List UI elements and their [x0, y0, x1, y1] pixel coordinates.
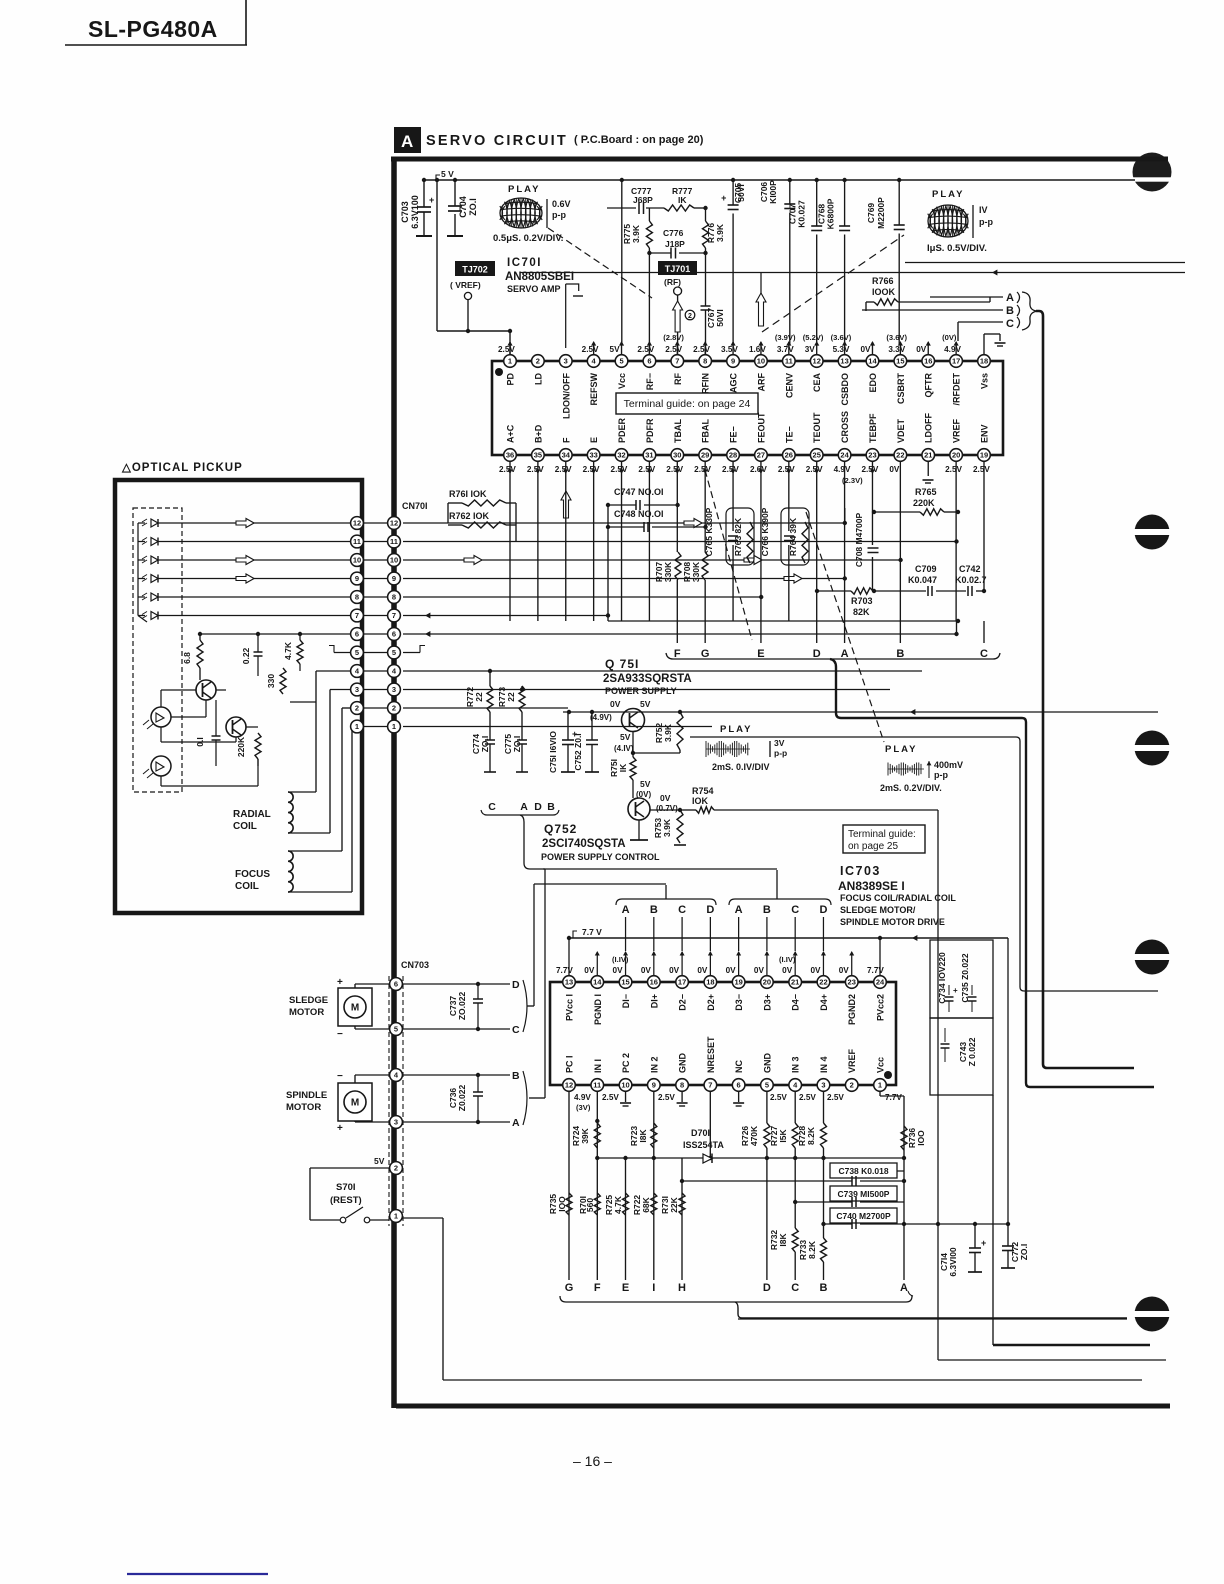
- svg-text:F: F: [594, 1282, 601, 1294]
- svg-text:PLAY: PLAY: [885, 744, 917, 755]
- svg-text:3: 3: [392, 685, 396, 694]
- svg-text:C709: C709: [915, 564, 937, 574]
- svg-text:470K: 470K: [749, 1125, 759, 1146]
- svg-text:DI−: DI−: [621, 994, 631, 1008]
- svg-text:B: B: [512, 1070, 520, 1082]
- svg-text:22: 22: [819, 978, 827, 987]
- svg-text:5V: 5V: [620, 732, 631, 742]
- svg-text:22: 22: [474, 692, 484, 702]
- svg-text:(I.IV): (I.IV): [612, 955, 629, 964]
- svg-text:(4.9V): (4.9V): [590, 713, 612, 722]
- svg-text:IN 3: IN 3: [791, 1056, 801, 1073]
- svg-text:CSBDO: CSBDO: [840, 373, 850, 406]
- svg-text:9: 9: [392, 574, 396, 583]
- svg-text:IOOK: IOOK: [872, 287, 896, 297]
- svg-text:(5.2V): (5.2V): [803, 333, 824, 342]
- svg-text:LD: LD: [533, 373, 543, 385]
- svg-text:K0.02.7: K0.02.7: [955, 575, 987, 585]
- svg-text:ZO.I: ZO.I: [468, 198, 478, 216]
- svg-text:0V: 0V: [610, 699, 621, 709]
- svg-text:POWER SUPPLY: POWER SUPPLY: [605, 686, 677, 696]
- svg-text:27: 27: [757, 451, 765, 460]
- svg-text:A+C: A+C: [506, 424, 516, 443]
- svg-text:5: 5: [765, 1081, 769, 1090]
- svg-text:2SCI740SQSTA: 2SCI740SQSTA: [542, 838, 626, 850]
- svg-text:M: M: [351, 1098, 359, 1109]
- svg-text:Terminal guide:: Terminal guide:: [848, 829, 916, 840]
- svg-text:ARF: ARF: [756, 373, 766, 392]
- svg-text:CN703: CN703: [401, 960, 429, 970]
- svg-text:1: 1: [392, 722, 396, 731]
- svg-text:2.5V: 2.5V: [666, 465, 683, 474]
- svg-text:0V: 0V: [782, 966, 793, 975]
- svg-text:22K: 22K: [669, 1196, 679, 1212]
- svg-text:D3+: D3+: [762, 994, 772, 1011]
- svg-text:B: B: [547, 801, 555, 813]
- svg-text:B: B: [820, 1282, 828, 1294]
- svg-text:D2+: D2+: [706, 994, 716, 1011]
- svg-text:3.9K: 3.9K: [631, 224, 641, 243]
- svg-text:p-p: p-p: [934, 770, 948, 780]
- svg-text:10: 10: [353, 556, 361, 565]
- svg-text:QFTR: QFTR: [924, 373, 934, 398]
- svg-text:C708 M4700P: C708 M4700P: [854, 513, 864, 568]
- svg-text:Vcc: Vcc: [876, 1057, 886, 1073]
- svg-text:I: I: [652, 1282, 655, 1294]
- svg-text:(I.IV): (I.IV): [779, 955, 796, 964]
- svg-text:18: 18: [980, 357, 988, 366]
- svg-text:2mS. 0.IV/DIV: 2mS. 0.IV/DIV: [712, 762, 770, 772]
- svg-text:(2.8V): (2.8V): [663, 333, 684, 342]
- svg-text:G: G: [565, 1282, 574, 1294]
- svg-text:E: E: [589, 437, 599, 443]
- svg-text:9: 9: [355, 574, 359, 583]
- svg-text:(4.IV): (4.IV): [614, 744, 634, 753]
- svg-text:2SA933SQRSTA: 2SA933SQRSTA: [603, 673, 692, 685]
- svg-text:10: 10: [621, 1081, 629, 1090]
- svg-text:C739 MI500P: C739 MI500P: [838, 1189, 890, 1199]
- svg-text:CROSS: CROSS: [840, 411, 850, 443]
- svg-text:19: 19: [980, 451, 988, 460]
- svg-text:17: 17: [678, 978, 686, 987]
- svg-text:0V: 0V: [641, 966, 652, 975]
- svg-text:I8K: I8K: [778, 1233, 788, 1247]
- svg-text:8: 8: [680, 1081, 684, 1090]
- svg-text:B: B: [650, 904, 658, 916]
- svg-text:A: A: [512, 1117, 520, 1129]
- svg-text:5V: 5V: [610, 345, 621, 354]
- svg-text:PC I: PC I: [565, 1055, 575, 1073]
- svg-text:△OPTICAL PICKUP: △OPTICAL PICKUP: [121, 462, 243, 474]
- svg-text:22: 22: [896, 451, 904, 460]
- svg-text:FE−: FE−: [729, 426, 739, 443]
- svg-text:IK: IK: [618, 763, 628, 772]
- svg-text:C: C: [678, 904, 686, 916]
- svg-text:17: 17: [952, 357, 960, 366]
- svg-text:6: 6: [647, 357, 651, 366]
- svg-text:2.5V: 2.5V: [827, 1093, 844, 1102]
- svg-text:35: 35: [534, 451, 542, 460]
- svg-text:C752 Z0.I: C752 Z0.I: [573, 733, 583, 770]
- svg-text:+: +: [337, 977, 343, 988]
- svg-text:B+D: B+D: [533, 424, 543, 443]
- svg-text:21: 21: [791, 978, 799, 987]
- svg-text:on page 25: on page 25: [848, 841, 898, 852]
- svg-text:R764 39K: R764 39K: [788, 517, 798, 556]
- svg-text:24: 24: [840, 451, 849, 460]
- svg-text:DI+: DI+: [649, 994, 659, 1008]
- svg-text:(3.9V): (3.9V): [775, 333, 796, 342]
- svg-text:5.3V: 5.3V: [833, 345, 850, 354]
- svg-text:GND: GND: [762, 1053, 772, 1074]
- svg-text:23: 23: [868, 451, 876, 460]
- svg-text:1: 1: [355, 722, 359, 731]
- svg-text:PVcc2: PVcc2: [876, 994, 886, 1021]
- svg-text:12: 12: [353, 519, 361, 528]
- svg-text:2: 2: [850, 1081, 854, 1090]
- svg-text:C738 K0.018: C738 K0.018: [838, 1166, 888, 1176]
- svg-text:RFIN: RFIN: [701, 373, 711, 394]
- svg-text:ISS254TA: ISS254TA: [683, 1140, 724, 1150]
- svg-text:R765: R765: [915, 487, 937, 497]
- svg-text:0.22: 0.22: [241, 647, 251, 664]
- svg-text:−: −: [337, 1071, 343, 1082]
- svg-text:SERVO AMP: SERVO AMP: [507, 284, 561, 294]
- svg-text:G: G: [701, 648, 710, 660]
- svg-text:36: 36: [506, 451, 514, 460]
- svg-text:C75I I6VIO: C75I I6VIO: [548, 731, 558, 773]
- svg-text:2mS. 0.2V/DIV.: 2mS. 0.2V/DIV.: [880, 783, 942, 793]
- svg-text:7.7V: 7.7V: [556, 966, 573, 975]
- svg-text:REFSW: REFSW: [589, 372, 599, 405]
- svg-text:R763 82K: R763 82K: [733, 517, 743, 556]
- svg-text:2: 2: [536, 357, 540, 366]
- svg-text:MOTOR: MOTOR: [286, 1102, 321, 1113]
- svg-text:8: 8: [703, 357, 707, 366]
- svg-text:10: 10: [390, 556, 398, 565]
- svg-text:2.5V: 2.5V: [861, 465, 878, 474]
- svg-text:2.5V: 2.5V: [693, 345, 710, 354]
- svg-text:H: H: [678, 1282, 686, 1294]
- svg-text:14: 14: [868, 357, 877, 366]
- svg-text:4.7K: 4.7K: [283, 641, 293, 660]
- svg-text:7: 7: [675, 357, 679, 366]
- svg-text:2.5V: 2.5V: [778, 465, 795, 474]
- svg-text:CENV: CENV: [784, 373, 794, 398]
- svg-text:+: +: [337, 1123, 343, 1134]
- svg-text:+: +: [981, 1238, 986, 1248]
- svg-text:30: 30: [673, 451, 681, 460]
- svg-text:3.7V: 3.7V: [777, 345, 794, 354]
- svg-text:D70I: D70I: [691, 1128, 710, 1138]
- svg-text:+: +: [953, 986, 958, 995]
- svg-text:5: 5: [355, 648, 359, 657]
- svg-text:2: 2: [392, 704, 396, 713]
- svg-text:A: A: [841, 648, 849, 660]
- svg-text:IN I: IN I: [593, 1059, 603, 1073]
- svg-text:0V: 0V: [839, 966, 850, 975]
- svg-text:5: 5: [619, 357, 623, 366]
- svg-text:7: 7: [355, 611, 359, 620]
- svg-text:0V: 0V: [660, 793, 671, 803]
- svg-text:400mV: 400mV: [934, 760, 963, 770]
- svg-text:IOK: IOK: [692, 796, 709, 806]
- svg-text:M: M: [351, 1003, 359, 1014]
- svg-text:13: 13: [840, 357, 848, 366]
- svg-text:5: 5: [394, 1025, 398, 1034]
- svg-text:29: 29: [701, 451, 709, 460]
- svg-text:C: C: [1006, 318, 1014, 330]
- svg-text:FBAL: FBAL: [701, 419, 711, 443]
- svg-text:4.9V: 4.9V: [944, 345, 961, 354]
- svg-text:15: 15: [896, 357, 904, 366]
- svg-text:1.6V: 1.6V: [749, 345, 766, 354]
- svg-text:IC70I: IC70I: [507, 257, 542, 269]
- svg-text:IK: IK: [678, 195, 687, 205]
- svg-text:1: 1: [508, 357, 512, 366]
- svg-text:A: A: [622, 904, 630, 916]
- svg-text:2: 2: [688, 313, 692, 320]
- svg-text:Vcc: Vcc: [617, 373, 627, 389]
- svg-text:A: A: [735, 904, 743, 916]
- svg-text:8: 8: [355, 593, 359, 602]
- svg-text:D4+: D4+: [819, 994, 829, 1011]
- svg-text:NC: NC: [734, 1060, 744, 1073]
- svg-text:PGND I: PGND I: [593, 994, 603, 1025]
- svg-text:16: 16: [650, 978, 658, 987]
- svg-text:B: B: [896, 648, 904, 660]
- svg-text:20: 20: [763, 978, 771, 987]
- svg-text:/RFDET: /RFDET: [952, 373, 962, 406]
- svg-text:3.9K: 3.9K: [715, 223, 725, 242]
- svg-text:TJ702: TJ702: [462, 265, 488, 275]
- svg-text:15: 15: [621, 978, 629, 987]
- svg-text:3.3V: 3.3V: [888, 345, 905, 354]
- svg-text:IN 2: IN 2: [649, 1056, 659, 1073]
- svg-text:CN70I: CN70I: [402, 501, 428, 511]
- svg-text:IOO: IOO: [916, 1130, 926, 1146]
- svg-text:14: 14: [593, 978, 602, 987]
- svg-text:2.5V: 2.5V: [555, 465, 572, 474]
- svg-text:0.6V: 0.6V: [552, 199, 571, 209]
- svg-text:330K: 330K: [663, 561, 673, 582]
- svg-text:−: −: [337, 1029, 343, 1040]
- svg-text:C735 Z0.022: C735 Z0.022: [960, 953, 970, 1002]
- svg-text:16: 16: [924, 357, 932, 366]
- svg-text:C776: C776: [663, 228, 684, 238]
- svg-text:D: D: [534, 801, 542, 813]
- svg-text:p-p: p-p: [774, 748, 787, 758]
- svg-text:6: 6: [355, 630, 359, 639]
- svg-text:SPINDLE MOTOR DRIVE: SPINDLE MOTOR DRIVE: [840, 917, 945, 927]
- svg-text:S70I: S70I: [336, 1182, 356, 1193]
- svg-text:0V: 0V: [889, 465, 900, 474]
- svg-text:CSBRT: CSBRT: [896, 372, 906, 404]
- svg-text:(REST): (REST): [330, 1195, 362, 1206]
- svg-text:I8K: I8K: [638, 1129, 648, 1143]
- svg-text:2.5V: 2.5V: [665, 345, 682, 354]
- svg-text:8.2K: 8.2K: [806, 1126, 816, 1145]
- svg-text:6: 6: [392, 630, 396, 639]
- svg-text:220K: 220K: [913, 498, 935, 508]
- svg-text:PD: PD: [506, 373, 516, 386]
- svg-text:K6800P: K6800P: [826, 198, 836, 229]
- svg-text:4.9V: 4.9V: [834, 465, 851, 474]
- svg-text:Z 0.022: Z 0.022: [967, 1037, 977, 1066]
- svg-text:21: 21: [924, 451, 932, 460]
- svg-text:TEBPF: TEBPF: [868, 413, 878, 443]
- svg-text:R703: R703: [851, 596, 873, 606]
- svg-text:C: C: [512, 1024, 520, 1036]
- svg-text:2.5V: 2.5V: [498, 345, 515, 354]
- svg-text:2.5V: 2.5V: [722, 465, 739, 474]
- svg-text:A: A: [401, 132, 413, 151]
- svg-text:5V: 5V: [640, 699, 651, 709]
- svg-text:LDON/OFF: LDON/OFF: [561, 373, 571, 419]
- svg-text:(3.6V): (3.6V): [886, 333, 907, 342]
- svg-text:3: 3: [394, 1118, 398, 1127]
- svg-text:5V: 5V: [374, 1156, 385, 1166]
- svg-text:D: D: [819, 904, 827, 916]
- svg-text:D: D: [813, 648, 821, 660]
- svg-text:PLAY: PLAY: [720, 724, 752, 735]
- svg-text:0V: 0V: [669, 966, 680, 975]
- svg-text:6.3VI00: 6.3VI00: [948, 1247, 958, 1277]
- svg-text:FOCUS COIL/RADIAL COIL: FOCUS COIL/RADIAL COIL: [840, 893, 956, 903]
- svg-text:0V: 0V: [860, 345, 871, 354]
- svg-text:1: 1: [878, 1081, 882, 1090]
- svg-text:0V: 0V: [697, 966, 708, 975]
- svg-text:C: C: [791, 1282, 799, 1294]
- svg-text:C: C: [980, 648, 988, 660]
- svg-text:A: A: [900, 1282, 908, 1294]
- svg-text:D3−: D3−: [734, 994, 744, 1011]
- svg-text:FEOUT: FEOUT: [756, 412, 766, 443]
- svg-text:R762 IOK: R762 IOK: [449, 511, 490, 521]
- svg-text:0V: 0V: [613, 966, 624, 975]
- svg-text:2.5V: 2.5V: [658, 1093, 675, 1102]
- svg-text:32: 32: [617, 451, 625, 460]
- svg-text:7: 7: [392, 611, 396, 620]
- svg-text:2.5V: 2.5V: [582, 345, 599, 354]
- svg-text:POWER SUPPLY CONTROL: POWER SUPPLY CONTROL: [541, 852, 660, 862]
- svg-text:2.5V: 2.5V: [499, 465, 516, 474]
- svg-text:20: 20: [952, 451, 960, 460]
- svg-text:50VI: 50VI: [715, 309, 725, 327]
- svg-text:B: B: [763, 904, 771, 916]
- svg-text:p-p: p-p: [979, 217, 993, 227]
- svg-text:+: +: [721, 193, 726, 203]
- svg-text:( VREF): ( VREF): [450, 280, 481, 290]
- svg-text:6: 6: [394, 980, 398, 989]
- svg-text:D2−: D2−: [678, 994, 688, 1011]
- svg-text:PGND2: PGND2: [847, 994, 857, 1025]
- svg-text:11: 11: [785, 357, 793, 366]
- svg-text:13: 13: [565, 978, 573, 987]
- svg-text:6.3V100: 6.3V100: [410, 195, 420, 229]
- svg-text:0.5μS. 0.2V/DIV.: 0.5μS. 0.2V/DIV.: [493, 233, 563, 244]
- svg-text:3V: 3V: [774, 738, 785, 748]
- svg-text:82K: 82K: [853, 607, 870, 617]
- svg-text:( P.C.Board : on page 20): ( P.C.Board : on page 20): [574, 134, 704, 146]
- svg-text:(0.7V): (0.7V): [656, 804, 678, 813]
- svg-text:C703: C703: [400, 201, 410, 223]
- svg-text:Q 75I: Q 75I: [605, 657, 639, 671]
- svg-text:330: 330: [266, 674, 276, 688]
- svg-text:IμS. 0.5V/DIV.: IμS. 0.5V/DIV.: [927, 243, 987, 254]
- svg-text:9: 9: [731, 357, 735, 366]
- svg-text:PLAY: PLAY: [932, 189, 964, 200]
- svg-text:K0.047: K0.047: [908, 575, 937, 585]
- svg-text:COIL: COIL: [235, 881, 259, 892]
- svg-text:6.8: 6.8: [182, 652, 192, 664]
- svg-text:VREF: VREF: [847, 1048, 857, 1073]
- svg-text:220K: 220K: [236, 736, 246, 757]
- svg-text:VDET: VDET: [896, 418, 906, 443]
- svg-text:7.7 V: 7.7 V: [582, 927, 602, 937]
- svg-text:(0V): (0V): [942, 333, 957, 342]
- svg-text:RF−: RF−: [645, 373, 655, 390]
- svg-text:7.7V: 7.7V: [885, 1093, 902, 1102]
- svg-text:(RF): (RF): [664, 277, 681, 287]
- svg-text:F: F: [674, 648, 681, 660]
- svg-text:IN 4: IN 4: [819, 1056, 829, 1073]
- svg-text:11: 11: [593, 1081, 601, 1090]
- svg-text:3: 3: [564, 357, 568, 366]
- svg-text:18: 18: [706, 978, 714, 987]
- svg-text:AN8389SE I: AN8389SE I: [838, 879, 905, 893]
- svg-text:2: 2: [394, 1164, 398, 1173]
- svg-text:Q752: Q752: [544, 822, 577, 836]
- svg-text:IC703: IC703: [840, 864, 881, 878]
- svg-text:– 16 –: – 16 –: [573, 1453, 612, 1469]
- svg-text:VREF: VREF: [952, 418, 962, 443]
- svg-text:R766: R766: [872, 276, 894, 286]
- svg-text:10: 10: [757, 357, 765, 366]
- svg-text:TE−: TE−: [784, 426, 794, 443]
- svg-text:PDFR: PDFR: [645, 418, 655, 443]
- svg-text:C742: C742: [959, 564, 981, 574]
- svg-text:2.5V: 2.5V: [806, 465, 823, 474]
- svg-text:11: 11: [390, 537, 398, 546]
- svg-text:25: 25: [813, 451, 821, 460]
- svg-text:12: 12: [813, 357, 821, 366]
- svg-text:EDO: EDO: [868, 373, 878, 393]
- svg-text:5V: 5V: [640, 779, 651, 789]
- svg-text:C: C: [791, 904, 799, 916]
- svg-text:E: E: [757, 648, 764, 660]
- svg-text:IV: IV: [979, 205, 988, 215]
- svg-text:0V: 0V: [584, 966, 595, 975]
- svg-text:2.5V: 2.5V: [945, 465, 962, 474]
- svg-text:COIL: COIL: [233, 821, 257, 832]
- svg-text:4.9V: 4.9V: [574, 1093, 591, 1102]
- svg-text:2.5V: 2.5V: [611, 465, 628, 474]
- svg-text:R76I IOK: R76I IOK: [449, 489, 487, 499]
- svg-text:Terminal guide: on page 24: Terminal guide: on page 24: [624, 398, 751, 410]
- svg-text:2.5V: 2.5V: [799, 1093, 816, 1102]
- svg-text:560: 560: [585, 1198, 595, 1212]
- svg-text:IOO: IOO: [557, 1196, 567, 1212]
- svg-text:R754: R754: [692, 786, 714, 796]
- svg-text:5 V: 5 V: [441, 169, 454, 179]
- svg-text:8: 8: [392, 593, 396, 602]
- svg-text:TBAL: TBAL: [673, 419, 683, 443]
- svg-text:2.5V: 2.5V: [770, 1093, 787, 1102]
- svg-text:6: 6: [737, 1081, 741, 1090]
- svg-text:ZO.022: ZO.022: [457, 992, 467, 1021]
- svg-text:2: 2: [355, 704, 359, 713]
